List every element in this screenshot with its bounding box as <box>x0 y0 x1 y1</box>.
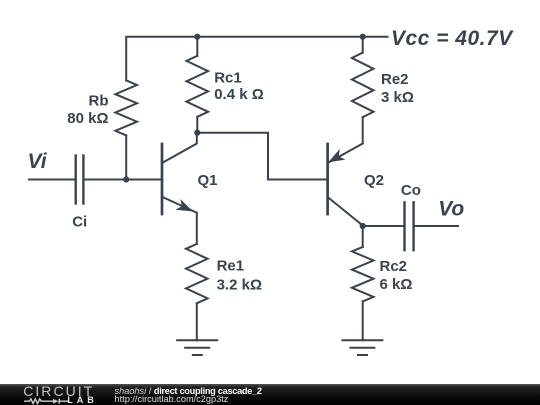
junction Rc1/Q1 collector <box>194 130 200 136</box>
footer text line 1 <box>115 387 262 396</box>
wire Re1 bottom lead <box>196 303 198 340</box>
ground G1 <box>177 340 217 355</box>
transistor Q1 <box>161 144 164 214</box>
svg-text:3 kΩ: 3 kΩ <box>381 89 414 106</box>
footer bar <box>0 384 540 405</box>
wire Q1 collector to Q2 base <box>197 133 327 180</box>
wire Q2 collector to Co <box>363 225 404 227</box>
svg-text:0.4 k Ω: 0.4 k Ω <box>214 86 264 103</box>
capacitor Co <box>405 202 414 250</box>
resistor Re1 <box>186 244 208 303</box>
wire Q1 emitter lead <box>196 213 198 244</box>
svg-text:Re1: Re1 <box>217 258 245 275</box>
resistor Rc2 <box>352 247 374 302</box>
wire Vi input <box>29 179 74 181</box>
svg-text:Ci: Ci <box>72 214 87 231</box>
svg-text:Rc2: Rc2 <box>380 258 408 275</box>
svg-text:Vo: Vo <box>438 198 464 221</box>
svg-text:Q2: Q2 <box>364 172 384 189</box>
resistor Rb <box>115 80 137 135</box>
wire Q2 collector to Rc2 <box>362 226 364 247</box>
svg-text:Vi: Vi <box>28 150 48 173</box>
Q1 emitter arrow <box>175 199 193 211</box>
svg-text:Rc1: Rc1 <box>214 70 242 87</box>
CircuitLab logo <box>23 385 94 397</box>
resistor Rc1 <box>187 56 209 117</box>
wire Re2 top lead <box>362 37 364 53</box>
resistor Re2 <box>352 53 374 118</box>
wire Co to Vo <box>415 225 458 227</box>
wire Ci to Q1 base <box>85 179 162 181</box>
wire Vcc rail <box>126 37 387 81</box>
junction Rb/Q1 base <box>123 176 129 182</box>
svg-text:Co: Co <box>401 182 421 199</box>
wire Rb bottom lead <box>125 135 127 179</box>
junction Rc1/Vcc rail <box>194 34 200 40</box>
svg-text:80 kΩ: 80 kΩ <box>67 110 108 127</box>
footer text line 2 <box>115 395 229 404</box>
junction Re2/Vcc rail <box>360 34 366 40</box>
junction Q2 collector/Rc2/Co <box>360 223 366 229</box>
svg-text:Rb: Rb <box>89 92 109 109</box>
wire Rc1 top lead <box>196 37 198 56</box>
svg-text:3.2 kΩ: 3.2 kΩ <box>217 277 262 294</box>
svg-text:Q1: Q1 <box>198 172 218 189</box>
transistor Q2 <box>326 144 329 214</box>
svg-text:Re2: Re2 <box>381 71 409 88</box>
wire Rc2 bottom lead <box>362 301 364 340</box>
svg-text:Vcc = 40.7V: Vcc = 40.7V <box>391 27 514 50</box>
Q2 emitter arrow <box>328 149 345 162</box>
capacitor Ci <box>76 156 84 204</box>
svg-text:6 kΩ: 6 kΩ <box>380 276 413 293</box>
wire Re2 to Q2 emitter <box>362 117 364 143</box>
ground G2 <box>342 340 382 355</box>
wire Rc1 bottom lead <box>196 117 198 133</box>
